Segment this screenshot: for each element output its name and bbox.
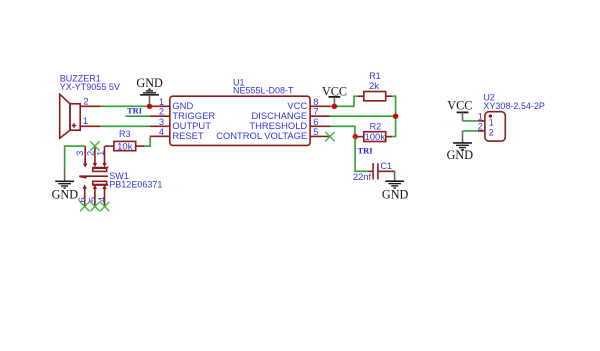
svg-text:4: 4 — [159, 126, 164, 137]
wire GND to U2 pin2 — [463, 130, 478, 132]
SW1 pin 5 — [86, 185, 97, 206]
no-connect X on SW1 pin 6 — [80, 202, 89, 211]
svg-text:1: 1 — [83, 115, 88, 126]
SW1 pin 2 — [85, 146, 97, 167]
switch SW1 PB12E06371 labels — [109, 171, 162, 190]
no-connect X on SW1 pin 2 — [90, 141, 99, 150]
svg-text:VCC: VCC — [447, 99, 472, 113]
SW1 top contact bracket — [92, 168, 108, 172]
BUZZER1 pin 1 — [80, 115, 100, 126]
svg-text:10k: 10k — [117, 142, 133, 153]
resistor R3 10k — [105, 129, 145, 152]
svg-text:100k: 100k — [364, 132, 385, 143]
svg-text:4: 4 — [96, 197, 107, 202]
junction at pin7 / R1 / R2 — [393, 114, 398, 119]
svg-text:GND: GND — [136, 76, 163, 90]
svg-text:5: 5 — [313, 126, 318, 137]
wire R3 to U1 RESET — [145, 136, 151, 146]
wire buzzer pin1 to U1 OUTPUT — [100, 125, 150, 127]
U1 pin 5 CONTROL VOLTAGE — [216, 126, 330, 141]
svg-text:2: 2 — [83, 95, 88, 106]
capacitor C1 22nf — [353, 161, 395, 183]
ground (top, at U1 pin1) — [136, 76, 163, 106]
svg-text:C1: C1 — [381, 161, 393, 171]
wire U1 pin6 down to R2/C1 junction — [330, 126, 355, 136]
no-connect X on U1 pin 5 — [325, 132, 334, 141]
junction at pin6 / R2 / C1 — [353, 134, 358, 139]
wire buzzer pin2 to GND junction — [100, 105, 150, 107]
svg-text:22nf: 22nf — [353, 172, 372, 183]
ground (at U2) — [447, 131, 474, 162]
svg-text:1: 1 — [94, 151, 105, 156]
wire VCC to U2 pin1 — [463, 120, 478, 122]
connector U2 XY308-2.54-2P — [483, 92, 545, 141]
U1 pin 4 RESET — [150, 126, 204, 141]
U1 pin 2 TRIGGER — [150, 106, 216, 121]
svg-text:R1: R1 — [369, 71, 381, 81]
BUZZER1 pin 2 — [80, 95, 100, 106]
U1 pin 1 GND — [150, 96, 194, 111]
net label TRI (at U1 TRIGGER) — [126, 105, 150, 116]
svg-text:GND: GND — [382, 187, 409, 201]
wire junction down to C1 — [355, 137, 368, 172]
svg-text:1: 1 — [489, 118, 494, 128]
wire U1 pin7 to R1/R2 junction — [330, 115, 396, 117]
no-connect X on SW1 pin 4 — [100, 202, 109, 211]
U1 pin 8 VCC — [287, 96, 330, 111]
BUZZER1 labels — [60, 73, 120, 92]
U1 pin 3 OUTPUT — [150, 116, 211, 131]
U1 pin 6 THRESHOLD — [249, 116, 330, 131]
svg-text:GND: GND — [447, 148, 474, 162]
ground (left, at SW1) — [52, 171, 79, 202]
U1 pin 7 DISCHANGE — [251, 106, 330, 121]
junction at VCC / pin8 — [332, 104, 337, 109]
no-connect X on SW1 pin 5 — [90, 202, 99, 211]
SW1 pin 1 — [94, 146, 106, 167]
ground (at C1) — [382, 171, 409, 202]
buzzer BUZZER1 — [60, 94, 80, 138]
svg-text:RESET: RESET — [172, 130, 204, 141]
svg-text:TRI: TRI — [358, 145, 374, 155]
resistor R1 2k — [358, 71, 393, 101]
SW1 pin 4 — [96, 185, 107, 206]
svg-text:YX-YT9055 5V: YX-YT9055 5V — [60, 82, 120, 92]
svg-text:GND: GND — [52, 187, 79, 201]
U2 pin 1 — [478, 111, 485, 122]
svg-text:2: 2 — [489, 127, 494, 137]
svg-text:6: 6 — [76, 197, 87, 202]
wire U1 pin8 to R1 — [330, 96, 358, 106]
VCC symbol at U2 — [447, 99, 472, 121]
wire R1 right side down to R2 — [392, 96, 395, 136]
SW1 movable contact — [79, 176, 108, 179]
junction at GND / buzzer pin2 / U1 pin1 — [147, 104, 152, 109]
VCC symbol at U1 pin 8 — [322, 84, 347, 106]
svg-text:PB12E06371: PB12E06371 — [109, 180, 162, 190]
svg-text:CONTROL VOLTAGE: CONTROL VOLTAGE — [216, 130, 307, 141]
svg-text:2k: 2k — [369, 81, 379, 92]
SW1 pin 3 — [74, 146, 87, 168]
SW1 pin 6 — [76, 184, 87, 206]
svg-text:2: 2 — [478, 121, 483, 132]
svg-text:XY308-2.54-2P: XY308-2.54-2P — [483, 101, 545, 111]
op-amp U1 body NE555L-D08-T — [170, 78, 310, 146]
resistor R2 100k — [355, 122, 392, 143]
svg-text:3: 3 — [74, 151, 85, 156]
svg-text:R2: R2 — [370, 122, 382, 132]
wire SW1 pin3 to GND — [65, 146, 86, 171]
SW1 bottom contact bracket — [92, 181, 108, 185]
svg-text:R3: R3 — [119, 129, 131, 139]
svg-text:NE555L-D08-T: NE555L-D08-T — [233, 86, 294, 96]
svg-text:TRI: TRI — [127, 105, 143, 115]
U2 pin 2 — [478, 121, 485, 132]
